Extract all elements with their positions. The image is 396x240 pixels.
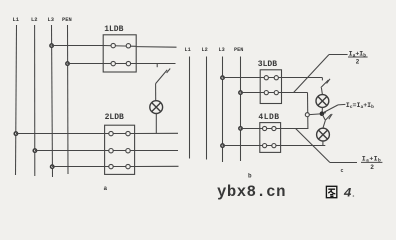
current label top fraction bar: [348, 56, 368, 58]
wire through 4LDB row2: [260, 145, 281, 147]
svg-text:4LDB: 4LDB: [258, 113, 279, 122]
junction on PEN feeding 1LDB: [66, 62, 69, 65]
junction on L3 feeding 4LDB: [221, 144, 224, 147]
wire through 2LDB row2: [105, 150, 135, 152]
2LDB terminal row3 right: [126, 164, 130, 168]
1LDB terminal row1 left: [111, 43, 115, 47]
wire L3 junction to 4LDB row2 input: [223, 145, 260, 147]
wire L2 vertical (panel b): [206, 57, 208, 160]
svg-text:c: c: [341, 168, 344, 174]
wire L3 junction to 3LDB row1 input: [223, 77, 261, 79]
wire switch S2 to lamp EL2: [321, 88, 322, 95]
svg-text:PEN: PEN: [62, 17, 72, 23]
wire horizontal to bottom current label: [330, 162, 357, 164]
junction on PEN feeding 4LDB: [239, 127, 242, 130]
svg-text:L2: L2: [202, 47, 208, 53]
2LDB terminal row3 left: [109, 164, 113, 168]
wire switch S1 to lamp EL1: [155, 84, 157, 101]
lamp EL3 cross: [319, 130, 328, 139]
svg-text:L1: L1: [13, 17, 19, 23]
svg-text:ybx8.cn: ybx8.cn: [217, 183, 286, 201]
wire L3 vertical (panel b): [222, 57, 224, 163]
wire 2LDB row2 output: [135, 150, 178, 152]
switch S2 tick: [327, 79, 330, 84]
4LDB terminal row2 left: [263, 144, 267, 148]
wire horizontal to top current label: [329, 54, 348, 56]
svg-text:2LDB: 2LDB: [105, 113, 124, 122]
wire 4LDB row1 output: [281, 128, 309, 130]
junction on L1 feeding 2LDB: [14, 132, 17, 135]
wire L3 vertical (panel a): [52, 25, 53, 177]
switch S1 stub: [156, 64, 158, 68]
switch S3 tick: [329, 114, 332, 119]
switch S2 blade: [321, 80, 329, 88]
lamp EL2 circle: [316, 95, 329, 108]
junction on L3 feeding 2LDB: [51, 165, 54, 168]
svg-text:a: a: [104, 185, 108, 192]
2LDB terminal row2 left: [109, 149, 113, 153]
1LDB terminal row1 right: [126, 44, 130, 48]
switch S1 tick: [167, 69, 171, 73]
2LDB terminal row2 right: [126, 149, 130, 153]
current label bottom fraction bar: [361, 161, 382, 163]
wire L1 junction to 2LDB row1 input: [16, 133, 105, 135]
wire 2LDB row1 output: [135, 132, 178, 134]
distribution box 4LDB outline: [260, 123, 281, 153]
3LDB terminal row2 left: [264, 91, 268, 95]
wire 1LDB row2 output: [136, 63, 175, 65]
wire L3 junction to 1LDB row1 input: [51, 45, 103, 47]
distribution box 3LDB outline: [260, 70, 281, 104]
wire PEN junction to 4LDB row1 input: [241, 128, 260, 130]
wire lamp EL3 down to 4LDB row2 output: [322, 141, 324, 146]
2LDB terminal row1 left: [109, 131, 113, 135]
wire PEN junction to 1LDB row2 input: [67, 63, 103, 65]
4LDB terminal row1 right: [272, 126, 276, 130]
1LDB terminal row2 right: [126, 61, 130, 65]
arrow line from Ic label horizontal: [338, 103, 345, 106]
3LDB terminal row1 right: [274, 76, 278, 80]
wire L3 junction to 2LDB row3 input: [52, 166, 105, 168]
wire lamp EL1 down to 2LDB row1 output: [155, 114, 157, 134]
wire 4LDB row2 output: [281, 145, 326, 147]
wire diagonal up to top current label: [294, 55, 329, 93]
4LDB terminal row1 left: [263, 126, 267, 130]
figure caption glyph tu (drawn): [326, 186, 336, 197]
arrowhead at junction: [323, 111, 326, 114]
wire node to shared junction: [309, 113, 320, 116]
switch S2 stub: [321, 78, 323, 81]
wire 1LDB row1 output toward L1 label: [136, 46, 176, 49]
lamp EL1 cross: [152, 103, 161, 112]
lamp EL1 circle: [150, 101, 163, 114]
wire 2LDB row3 output: [135, 165, 179, 167]
wire L1 vertical (panel b): [189, 57, 191, 159]
svg-text:3LDB: 3LDB: [258, 60, 277, 69]
wire PEN vertical (panel a): [67, 25, 70, 174]
junction on L3 feeding 3LDB: [221, 76, 224, 79]
distribution box 2LDB outline: [105, 125, 135, 174]
wire through 1LDB row2: [103, 63, 136, 65]
wire L2 vertical (panel a): [34, 25, 36, 176]
wire PEN vertical (panel b): [240, 57, 242, 162]
1LDB terminal row2 left: [111, 61, 115, 65]
wire lamp EL2 down to shared junction: [321, 107, 323, 112]
wire L2 junction to 2LDB row2 input: [35, 150, 105, 152]
switch S3 blade: [325, 114, 331, 120]
distribution box 1LDB outline: [103, 35, 136, 72]
svg-text:b: b: [248, 173, 252, 180]
svg-text:PEN: PEN: [234, 47, 243, 53]
3LDB terminal row2 right: [274, 91, 278, 95]
wire through 2LDB row1: [105, 133, 135, 135]
wire through 3LDB row1: [260, 77, 281, 79]
svg-text:L3: L3: [219, 47, 225, 53]
svg-text:L2: L2: [31, 17, 37, 23]
lamp EL2 cross: [318, 97, 327, 106]
wire switch S3 to lamp EL3: [323, 121, 325, 129]
2LDB terminal row1 right: [126, 131, 130, 135]
wire through 1LDB row1: [103, 45, 136, 48]
wire through 2LDB row3: [105, 166, 135, 168]
wire 3LDB row1 output: [282, 77, 323, 79]
faint period after 4: [353, 195, 355, 197]
3LDB terminal row1 left: [264, 76, 268, 80]
shared neutral junction dot: [320, 111, 325, 116]
wire L1 vertical (panel a): [16, 25, 17, 175]
wire diagonal down to bottom current label: [296, 129, 330, 163]
wire through 3LDB row2: [260, 92, 281, 94]
svg-text:2: 2: [370, 164, 374, 171]
switch S1 blade: [156, 70, 168, 84]
junction on L3 feeding 1LDB: [50, 44, 53, 47]
arrow line diagonal to junction: [324, 105, 338, 113]
svg-text:L3: L3: [48, 17, 54, 23]
4LDB terminal row2 right: [272, 144, 276, 148]
svg-text:4: 4: [344, 186, 352, 201]
wire 3LDB row2 output: [282, 92, 308, 94]
neutral node circle: [305, 113, 309, 117]
wire 3LDB row2 down to neutral node: [307, 93, 309, 129]
svg-text:2: 2: [356, 58, 360, 65]
lamp EL3 circle: [317, 128, 330, 141]
wire junction to switch S3: [322, 114, 326, 121]
svg-text:L1: L1: [185, 47, 191, 53]
wire through 4LDB row1: [260, 128, 281, 130]
wire PEN junction to 3LDB row2 input: [241, 92, 261, 94]
junction on PEN feeding 3LDB: [239, 91, 242, 94]
svg-text:1LDB: 1LDB: [104, 25, 123, 34]
junction on L2 feeding 2LDB: [33, 149, 36, 152]
